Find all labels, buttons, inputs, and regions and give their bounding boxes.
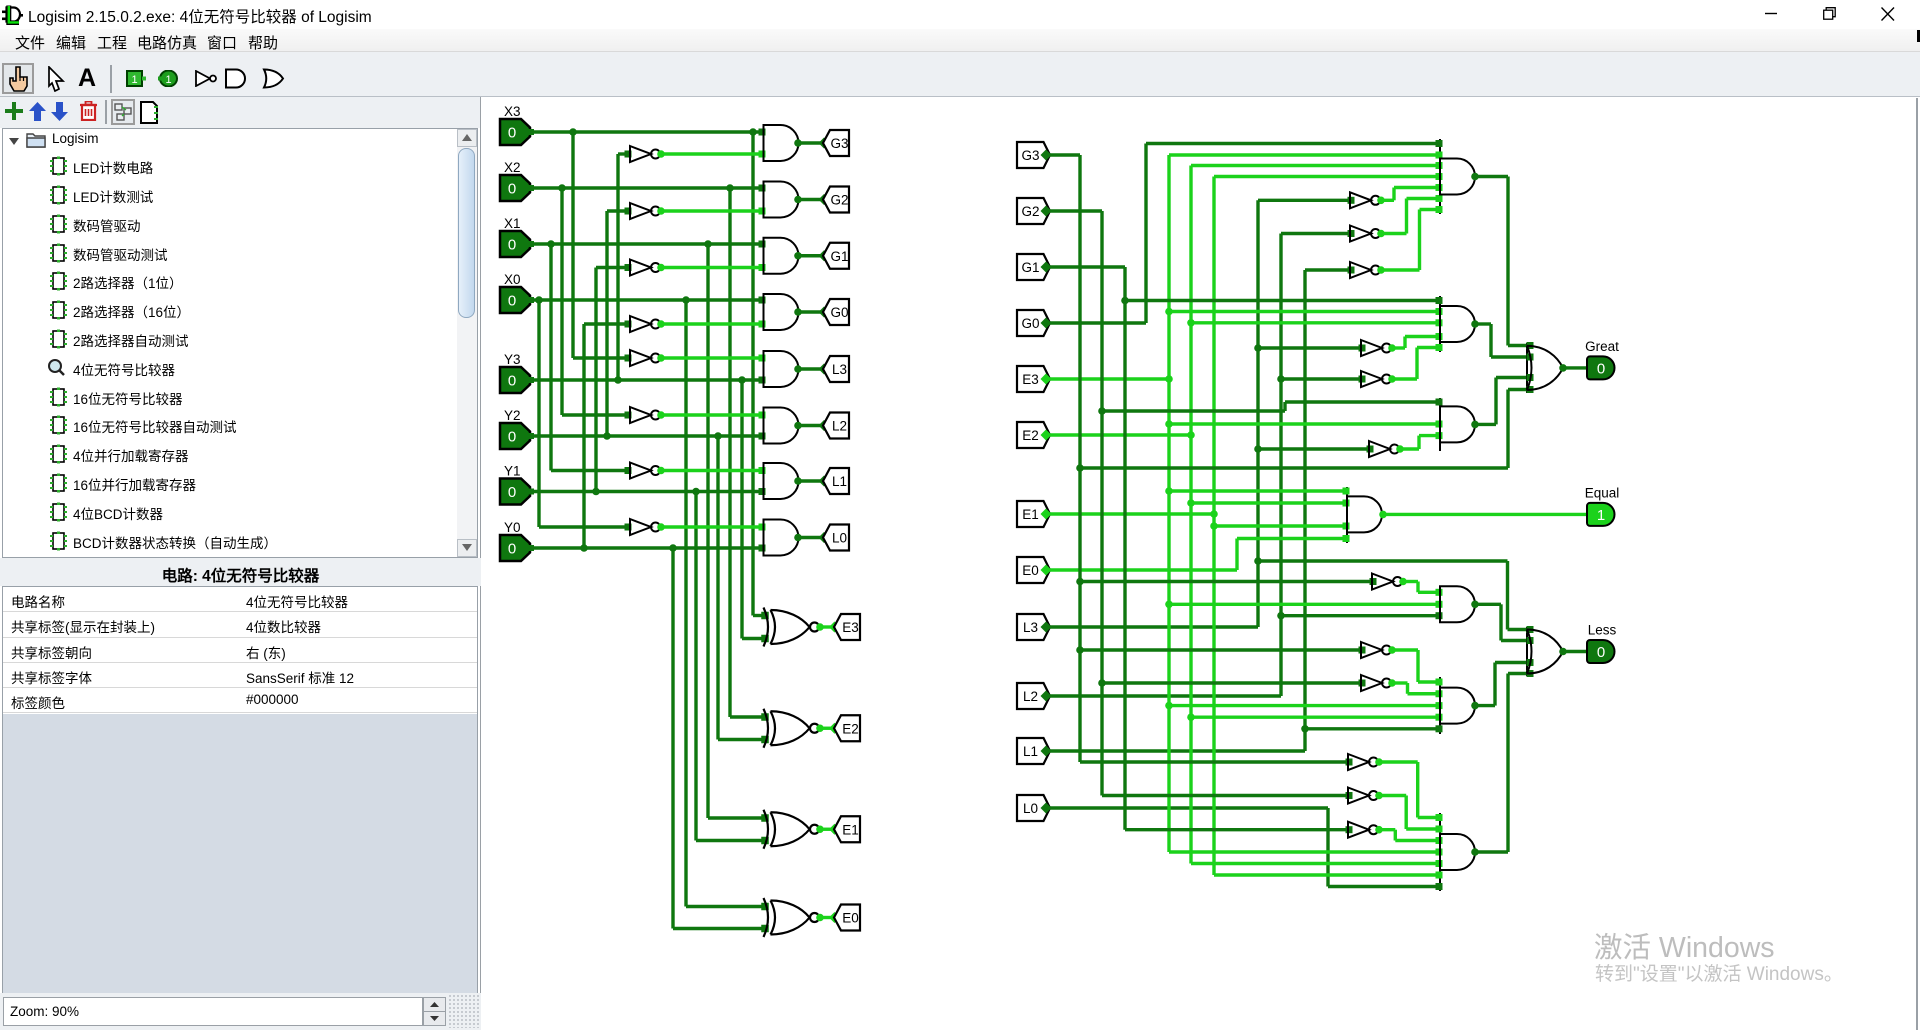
wire AND G0 to tunnel <box>798 310 823 313</box>
wire G3 into NOT D1 <box>1080 580 1372 583</box>
wire G1 riser <box>1123 267 1126 830</box>
svg-text:L2: L2 <box>1023 689 1038 704</box>
wire Y1 riser to NOT <box>594 268 597 492</box>
wire AND D to OR Less <box>1499 604 1502 640</box>
wire X0 riser to NOT <box>537 300 540 527</box>
svg-text:1: 1 <box>165 74 171 86</box>
port AND F input <box>1436 849 1443 856</box>
wire /Y0 NOT input <box>584 322 630 325</box>
junction <box>1165 375 1173 383</box>
input pin X3 <box>500 119 530 145</box>
junction <box>738 376 746 384</box>
NOT gate D1 (/G3) <box>1372 574 1402 590</box>
wire AND L0 to tunnel <box>798 536 823 539</box>
port tunnel G3 <box>819 138 830 149</box>
port OR Great input <box>1527 354 1534 361</box>
project toolbar <box>0 97 481 128</box>
AND gate D (bit2 less term) <box>1440 586 1475 622</box>
svg-text:0: 0 <box>508 125 516 142</box>
wire G2 into NOT E2 <box>1102 681 1361 684</box>
wire E1 from tunnel <box>1050 512 1214 515</box>
NOT gate N3 /L1 <box>1350 262 1380 278</box>
title bar <box>0 0 1920 29</box>
AND gate A (bit0 greater term) <box>1440 159 1475 195</box>
AND gate L2 <box>764 408 799 444</box>
port NOT Y2 output <box>657 207 665 215</box>
port AND L1 input B <box>759 488 766 495</box>
wire E2 riser <box>1189 166 1192 864</box>
wire E1 into AND Equal <box>1214 524 1346 527</box>
wire E3 into AND E <box>1169 704 1439 707</box>
port AND L2 input A <box>759 412 766 419</box>
port AND L3 input B <box>759 377 766 384</box>
NOT gate inverting Y1 <box>630 260 660 276</box>
wire X1 bus <box>530 242 764 245</box>
port AND L2 output <box>794 422 802 430</box>
wire G0 riser <box>1144 144 1147 324</box>
port AND A input <box>1436 162 1443 169</box>
wire X0 riser to XNOR E0 <box>684 300 687 907</box>
junction <box>1277 375 1285 383</box>
junction <box>1301 725 1309 733</box>
port AND L1 input A <box>759 467 766 474</box>
XNOR gate E3 <box>764 608 820 647</box>
port tunnel G2 <box>819 194 830 205</box>
port OR Great input <box>1527 374 1534 381</box>
wire Y1 bus <box>530 490 764 493</box>
AND gate G2 <box>764 182 799 218</box>
port AND L0 input B <box>759 545 766 552</box>
junction <box>580 544 588 552</box>
port tunnel E1 <box>1041 509 1052 520</box>
svg-text:L1: L1 <box>832 474 847 489</box>
port NOT F1 input <box>1346 759 1353 766</box>
wire X2 riser to NOT <box>560 188 563 415</box>
port AND G1 input A <box>759 241 766 248</box>
wire NOT B2 jog <box>1415 348 1418 380</box>
port OR Less output <box>1559 648 1567 656</box>
AND gate C (bit2 greater term) <box>1440 406 1475 442</box>
svg-text:1: 1 <box>131 74 137 86</box>
AND gate tool <box>224 68 248 89</box>
port NOT Y0 input <box>625 321 632 328</box>
wire NOT B2 into AND B <box>1417 346 1439 349</box>
wire NOT E1 jog <box>1416 650 1419 682</box>
port NOT N2 /L2 input <box>1348 230 1355 237</box>
wire into OR Great input 2 <box>1491 355 1529 358</box>
wire L2 into AND D <box>1281 614 1439 617</box>
junction <box>1254 557 1262 565</box>
Logisim application icon <box>2 4 24 25</box>
wire L3 riser <box>1256 200 1259 627</box>
port of pin Y2 <box>528 433 534 439</box>
tunnel G2 source <box>1017 198 1050 224</box>
junction <box>1165 487 1173 495</box>
wire AND F out <box>1475 850 1508 853</box>
junction <box>1098 679 1106 687</box>
junction <box>1254 344 1262 352</box>
AND gate L3 <box>764 351 799 387</box>
NOT gate B (/L3) <box>1361 340 1391 356</box>
port NOT Y3 output <box>657 150 665 158</box>
junction <box>1210 510 1218 518</box>
port AND D input <box>1436 612 1443 619</box>
port OR Less input <box>1527 626 1534 633</box>
port XNOR E0 output <box>816 914 824 922</box>
svg-text:X3: X3 <box>504 104 521 119</box>
wire NOT F3 into AND F <box>1395 839 1438 842</box>
port AND F input <box>1436 860 1443 867</box>
port tunnel G2 <box>1041 206 1052 217</box>
wire E3 riser <box>1167 155 1170 852</box>
port AND Equal output <box>1379 511 1387 519</box>
wire NOT N3 /L1 jog <box>1418 210 1421 271</box>
wire X3 riser to XNOR E3 <box>751 132 754 616</box>
wire NOT N1 /L3 out <box>1381 199 1394 202</box>
port AND F output <box>1471 848 1479 856</box>
tunnel G1 <box>823 243 849 269</box>
OR gate Less <box>1527 630 1563 674</box>
svg-text:L3: L3 <box>1023 620 1038 635</box>
wire into NOT N2 /L2 <box>1281 232 1350 235</box>
AND gate G0 <box>764 294 799 330</box>
port NOT F1 output <box>1375 758 1383 766</box>
port XNOR E2 input A <box>761 713 769 721</box>
wire Y3 bus <box>530 378 764 381</box>
junction <box>1076 464 1084 472</box>
port NOT N1 /L3 output <box>1377 197 1385 205</box>
wire NOT F2 jog <box>1404 796 1407 830</box>
port tunnel E2 <box>829 723 840 734</box>
tunnel G1 source <box>1017 254 1050 280</box>
wire XNOR E2 to tunnel <box>820 727 834 730</box>
wire E1 riser <box>1212 177 1215 876</box>
wire AND G3 to tunnel <box>798 141 823 144</box>
wire E3 into AND A <box>1169 153 1439 156</box>
wire E3 from tunnel <box>1050 377 1169 380</box>
wire OR Great to output pin <box>1563 366 1587 369</box>
output pin Less <box>1587 640 1615 663</box>
wire into NOT N1 /L3 <box>1258 199 1350 202</box>
port OR Less input <box>1527 659 1534 666</box>
port NOT Y1 output <box>657 264 665 272</box>
port AND G3 input A <box>759 129 766 136</box>
NOT gate inverting Y3 <box>630 146 660 162</box>
tunnel E3 source <box>1017 366 1050 392</box>
wire L0 into AND F <box>1328 885 1439 888</box>
port AND A input <box>1436 206 1443 213</box>
svg-text:0: 0 <box>508 181 516 198</box>
svg-text:E2: E2 <box>1022 428 1039 443</box>
wire AND E out <box>1475 704 1495 707</box>
gate input line AND D <box>1439 587 1441 621</box>
port AND G1 input B <box>759 264 766 271</box>
tunnel E3 <box>834 614 860 640</box>
left-right divider <box>480 97 481 1030</box>
tunnel G0 source <box>1017 310 1050 336</box>
port AND A input <box>1436 140 1443 147</box>
port of pin X1 <box>528 241 534 247</box>
wire AND A to OR Great <box>1506 177 1509 346</box>
wire L3 riser to OR Less <box>1506 561 1509 630</box>
wire AND D out <box>1475 603 1501 606</box>
wire E0 into AND Equal <box>1237 537 1346 540</box>
port NOT N3 /L1 output <box>1377 266 1385 274</box>
port NOT X3 input <box>625 355 632 362</box>
port AND A input <box>1436 173 1443 180</box>
edit tool arrow <box>46 66 66 92</box>
svg-text:G0: G0 <box>830 305 848 320</box>
junction <box>1076 646 1084 654</box>
port AND A input <box>1436 184 1443 191</box>
port AND B input <box>1436 308 1443 315</box>
port AND C input <box>1436 432 1443 439</box>
wire E3 into AND B <box>1169 310 1439 313</box>
AND gate G3 <box>764 125 799 161</box>
port of pin Y0 <box>528 545 534 551</box>
port XNOR E1 output <box>816 825 824 833</box>
wire /Y3 to AND <box>661 152 764 155</box>
port AND D input <box>1436 601 1443 608</box>
tunnel E0 source <box>1017 557 1050 583</box>
svg-text:G0: G0 <box>1021 316 1039 331</box>
port tunnel E0 <box>829 912 840 923</box>
wire into OR Less input 3 <box>1495 661 1529 664</box>
port tunnel L1 <box>819 476 830 487</box>
svg-text:L0: L0 <box>1023 801 1038 816</box>
wire AND A out <box>1475 175 1508 178</box>
NOT gate C1 (/L3) <box>1369 441 1399 457</box>
XNOR gate E1 <box>764 810 820 849</box>
port NOT X1 output <box>657 467 665 475</box>
junction <box>1187 319 1195 327</box>
wire E2 into AND Equal <box>1191 501 1346 504</box>
wire /X0 to AND <box>661 525 764 528</box>
wire /X0 NOT input <box>539 525 630 528</box>
port NOT F2 input <box>1346 792 1353 799</box>
wire AND E to OR Less <box>1493 663 1496 706</box>
junction <box>1098 407 1106 415</box>
svg-text:E0: E0 <box>1022 563 1039 578</box>
port AND L3 input A <box>759 355 766 362</box>
port AND G0 output <box>794 308 802 316</box>
wire AND C to OR Great <box>1494 378 1497 425</box>
wire X3 bus <box>530 130 764 133</box>
OR gate tool <box>262 68 286 89</box>
tunnel L3 <box>823 356 849 382</box>
NOT gate inverting X2 <box>630 407 660 423</box>
maximize button <box>1823 0 1836 29</box>
port of pin X3 <box>528 129 534 135</box>
wire NOT E2 out <box>1392 681 1408 684</box>
port AND G1 output <box>794 252 802 260</box>
wire NOT E2 jog <box>1406 683 1409 694</box>
wire /Y1 NOT input <box>596 266 630 269</box>
junction <box>714 432 722 440</box>
wire L2 from tunnel <box>1050 694 1281 697</box>
wire G2 into NOT F2 <box>1102 794 1348 797</box>
svg-text:E3: E3 <box>1022 372 1039 387</box>
port AND F input <box>1436 826 1443 833</box>
input pin Y3 <box>500 367 530 393</box>
port XNOR E1 input B <box>761 837 769 845</box>
input pin Y2 <box>500 423 530 449</box>
svg-text:L0: L0 <box>832 531 847 546</box>
port of pin X2 <box>528 185 534 191</box>
wire E0 from tunnel <box>1050 568 1237 571</box>
port NOT Y1 input <box>625 264 632 271</box>
svg-text:0: 0 <box>508 541 516 558</box>
NOT gate N1 /L3 <box>1350 192 1380 208</box>
port AND G0 input B <box>759 321 766 328</box>
wire AND F to OR Less <box>1506 674 1509 853</box>
junction <box>704 240 712 248</box>
wire /X3 NOT input <box>573 356 630 359</box>
tunnel E1 source <box>1017 501 1050 527</box>
wire NOT F2 out <box>1379 794 1406 797</box>
svg-text:Less: Less <box>1588 623 1617 638</box>
port NOT B output <box>1388 344 1396 352</box>
wire /X1 to AND <box>661 469 764 472</box>
AND gate F (bit0 less term) <box>1440 834 1475 870</box>
attribute table <box>2 586 478 935</box>
poke tool (selected) <box>2 63 34 94</box>
port AND F input <box>1436 883 1443 890</box>
tunnel L3 source <box>1017 614 1050 640</box>
port NOT B2 output <box>1388 375 1396 383</box>
port tunnel G0 <box>1041 318 1052 329</box>
wire /X1 NOT input <box>551 469 630 472</box>
port OR Great input <box>1527 342 1534 349</box>
port AND E input <box>1436 702 1443 709</box>
input pin Y1 <box>500 479 530 505</box>
junction <box>592 488 600 496</box>
wire L3 from tunnel <box>1050 625 1258 628</box>
NOT gate F3 (/G1) <box>1348 822 1378 838</box>
port XNOR E0 input B <box>761 925 769 933</box>
port AND L0 input A <box>759 524 766 531</box>
svg-text:E1: E1 <box>842 822 859 837</box>
port AND D input <box>1436 589 1443 596</box>
svg-text:G3: G3 <box>1021 148 1039 163</box>
wire into OR Less input 2 <box>1501 639 1529 642</box>
gate input line AND B <box>1439 296 1441 352</box>
port NOT C1 input <box>1367 446 1374 453</box>
wire NOT F1 jog <box>1416 762 1419 818</box>
port OR Less input <box>1527 670 1534 677</box>
port NOT N2 /L2 output <box>1377 230 1385 238</box>
wire X3 riser to NOT <box>571 132 574 358</box>
port NOT C1 output <box>1396 445 1404 453</box>
wire G2 branch <box>1102 409 1285 412</box>
wire Y1 riser to XNOR E1 <box>694 492 697 841</box>
gate input line OR Great <box>1526 343 1528 393</box>
wire NOT D1 out <box>1403 580 1418 583</box>
svg-text:0: 0 <box>1597 644 1605 661</box>
junction <box>558 184 566 192</box>
junction <box>1165 308 1173 316</box>
wire G3 from tunnel <box>1050 153 1080 156</box>
port tunnel E1 <box>829 824 840 835</box>
tunnel L0 <box>823 525 849 551</box>
port AND G2 output <box>794 196 802 204</box>
wire NOT C1 jog <box>1417 436 1420 449</box>
port NOT X0 output <box>657 523 665 531</box>
wire AND Equal to output pin <box>1383 513 1587 516</box>
port NOT N1 /L3 input <box>1348 197 1355 204</box>
zoom bar <box>0 993 481 1030</box>
wire X1 riser to NOT <box>549 244 552 471</box>
output pin tool <box>157 70 178 87</box>
wire Y into XNOR E0 <box>673 927 766 930</box>
gate input line AND Equal <box>1346 487 1348 543</box>
port AND B input <box>1436 333 1443 340</box>
port AND E output <box>1471 702 1479 710</box>
port NOT E1 input <box>1359 647 1366 654</box>
wire G2 jog <box>1283 402 1286 411</box>
port NOT Y0 output <box>657 320 665 328</box>
junction <box>1076 578 1084 586</box>
port AND L0 output <box>794 534 802 542</box>
svg-text:G3: G3 <box>830 136 848 151</box>
NOT gate inverting Y0 <box>630 316 660 332</box>
port tunnel G3 <box>1041 150 1052 161</box>
wire NOT N1 /L3 jog <box>1392 188 1395 201</box>
wire NOT B2 out <box>1392 377 1417 380</box>
port XNOR E3 output <box>816 623 824 631</box>
wire NOT E1 out <box>1392 648 1418 651</box>
wire E1 into AND F <box>1214 873 1439 876</box>
wire NOT C1 out <box>1400 447 1419 450</box>
port NOT X2 input <box>625 412 632 419</box>
wire AND B out <box>1475 322 1491 325</box>
input pin X2 <box>500 175 530 201</box>
tunnel G0 <box>823 299 849 325</box>
wire G3 riser <box>1078 155 1081 762</box>
port of pin Y1 <box>528 489 534 495</box>
tunnel E1 <box>834 816 860 842</box>
tunnel L2 <box>823 413 849 439</box>
wire Y3 riser to XNOR E3 <box>740 380 743 639</box>
gate input line AND E <box>1439 677 1441 734</box>
wire G3 into NOT E1 <box>1080 648 1361 651</box>
wire /X2 NOT input <box>562 413 630 416</box>
junction <box>1187 713 1195 721</box>
minimize button <box>1765 0 1778 29</box>
junction <box>726 184 734 192</box>
input pin tool <box>126 70 146 87</box>
port AND E input <box>1436 714 1443 721</box>
junction <box>692 488 700 496</box>
junction <box>547 240 555 248</box>
wire X into XNOR E2 <box>730 715 766 718</box>
port AND B input <box>1436 297 1443 304</box>
port AND Equal input <box>1343 500 1350 507</box>
port NOT Y2 input <box>625 208 632 215</box>
wire Y0 riser to XNOR E0 <box>671 548 674 929</box>
tree scrollbar <box>457 129 477 557</box>
port NOT D1 input <box>1370 578 1377 585</box>
wire NOT B out <box>1392 346 1405 349</box>
AND gate E (bit1 less term) <box>1440 688 1475 724</box>
svg-text:E2: E2 <box>842 721 859 736</box>
port tunnel L1 <box>1041 746 1052 757</box>
port AND C input <box>1436 399 1443 406</box>
port tunnel E3 <box>1041 374 1052 385</box>
AND gate L0 <box>764 520 799 556</box>
text tool <box>78 64 96 93</box>
port NOT X0 input <box>625 524 632 531</box>
